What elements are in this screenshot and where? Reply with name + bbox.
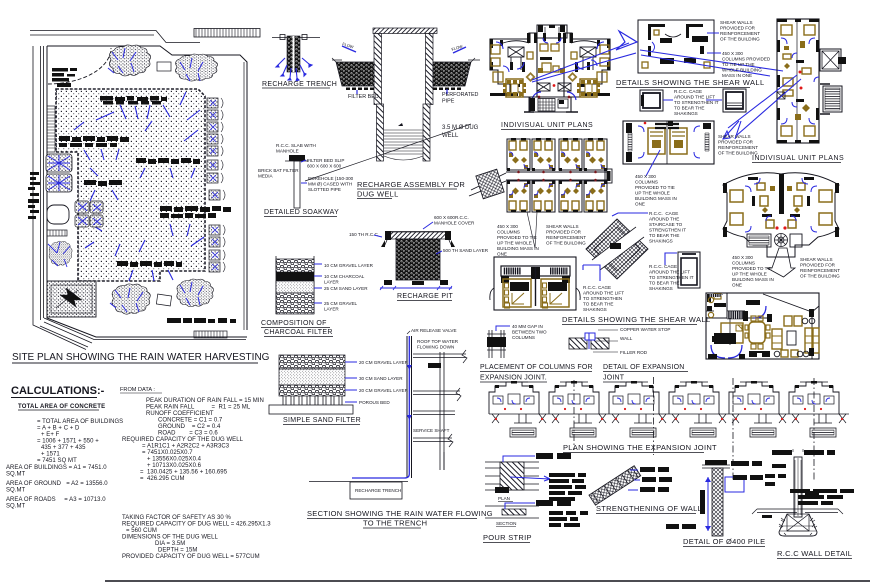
courtyard [56, 89, 205, 281]
svg-text:PEAK DURATION OF RAIN FALL = 1: PEAK DURATION OF RAIN FALL = 15 MIN [146, 398, 264, 404]
svg-text:BOREHOLE (150-300: BOREHOLE (150-300 [308, 176, 354, 181]
plan C butterfly [723, 173, 839, 277]
svg-text:PEAK RAIN FALL = R1: PEAK RAIN FALL = R1 = 25 ML [146, 405, 251, 411]
svg-text:MANHOLE COVER: MANHOLE COVER [434, 221, 475, 226]
svg-text:600 X 600R.C.C.: 600 X 600R.C.C. [434, 215, 469, 220]
svg-text:3.5 M Ø DUG: 3.5 M Ø DUG [442, 125, 479, 131]
composition of charcoal filter [261, 256, 374, 337]
svg-text:WALL: WALL [620, 336, 633, 341]
svg-text:DIA = 3.5M: DIA = 3.5M [155, 541, 185, 547]
slab row A [100, 96, 167, 105]
svg-text:+ 13556X0.025X0.4: + 13556X0.025X0.4 [147, 457, 202, 463]
svg-text:500 TH SAND LAYER: 500 TH SAND LAYER [443, 248, 489, 253]
svg-text:OF THE BUILDING: OF THE BUILDING [800, 274, 840, 279]
svg-text:FLOWING DOWN: FLOWING DOWN [417, 345, 454, 350]
svg-text:UP THE WHOLE: UP THE WHOLE [732, 272, 767, 277]
stair annex [823, 86, 842, 112]
svg-text:= 130.0425 + 135.56 + 160.695: = 130.0425 + 135.56 + 160.695 [140, 470, 228, 476]
ladder band small [47, 230, 67, 236]
svg-text:COLUMNS: COLUMNS [732, 261, 755, 266]
svg-text:PROVIDED TO TIE: PROVIDED TO TIE [497, 235, 537, 240]
svg-text:PIPE: PIPE [442, 99, 455, 105]
big blue arrow into box [616, 31, 637, 50]
svg-text:ONE: ONE [635, 202, 645, 207]
svg-text:R.C.C. CAGE: R.C.C. CAGE [649, 264, 677, 269]
canopy connector [157, 62, 171, 71]
svg-text:TO BEAR THE: TO BEAR THE [674, 106, 704, 111]
stair core bottom [747, 234, 771, 247]
top-right shear wall detail box [638, 20, 714, 73]
svg-text:RECHARGE PIT: RECHARGE PIT [397, 293, 454, 300]
svg-text:DETAIL OF EXPANSION: DETAIL OF EXPANSION [603, 364, 684, 371]
unit grid [469, 138, 612, 212]
plot pair mid-left [75, 201, 103, 227]
svg-text:INDIVISUAL UNIT PLANS: INDIVISUAL UNIT PLANS [501, 122, 593, 129]
expansion joint elevation [489, 381, 549, 437]
svg-text:SQ.MT: SQ.MT [6, 504, 26, 510]
svg-text:EXPANSION JOINT.: EXPANSION JOINT. [480, 375, 547, 382]
curved lintels [503, 41, 597, 43]
svg-text:SQ.MT: SQ.MT [6, 488, 26, 494]
tree canopy 1 [109, 45, 150, 76]
slab row B [59, 136, 129, 147]
bedroom [729, 318, 731, 345]
svg-text:SHEAR WALLS: SHEAR WALLS [800, 257, 833, 262]
svg-text:SECTION: SECTION [496, 521, 516, 526]
svg-text:AIR RELEASE VALVE: AIR RELEASE VALVE [411, 328, 457, 333]
slab row F [117, 261, 182, 267]
svg-text:AROUND THE LIFT: AROUND THE LIFT [583, 291, 624, 296]
svg-text:COLUMNS: COLUMNS [512, 335, 535, 340]
svg-text:SHAKINGS: SHAKINGS [583, 307, 607, 312]
svg-text:PROVIDED FOR: PROVIDED FOR [800, 263, 836, 268]
svg-text:150 TH R.C.C.: 150 TH R.C.C. [349, 232, 379, 237]
big dining tables [503, 79, 526, 97]
road into grid [469, 173, 506, 196]
svg-text:PLAN: PLAN [498, 496, 510, 501]
svg-text:= 7451 SQ MT: = 7451 SQ MT [37, 458, 77, 464]
svg-text:DIMENSIONS OF THE DUG WELL: DIMENSIONS OF THE DUG WELL [122, 535, 218, 541]
furniture [781, 25, 815, 136]
svg-text:TO BEAR THE: TO BEAR THE [649, 233, 679, 238]
svg-text:FILLER ROD: FILLER ROD [620, 350, 648, 355]
svg-text:ROAD = C3 = 0.6: ROAD = C3 = 0.6 [158, 431, 218, 437]
svg-text:MM Ø) CASED WITH: MM Ø) CASED WITH [308, 182, 352, 187]
svg-text:MEDIA: MEDIA [258, 174, 273, 179]
left ladder band [47, 106, 55, 152]
two-bed unit detail [623, 121, 714, 164]
svg-text:SHEAR WALLS: SHEAR WALLS [720, 20, 753, 25]
ground lines left/right [332, 59, 480, 61]
svg-text:450 X 300: 450 X 300 [732, 255, 753, 260]
lift X boxes upper [508, 47, 596, 70]
svg-text:R.C.C. SLAB WITH: R.C.C. SLAB WITH [276, 143, 316, 148]
svg-text:SQ.MT: SQ.MT [6, 472, 26, 478]
svg-text:R.C.C. CAGE: R.C.C. CAGE [649, 211, 678, 216]
svg-text:REINFORCEMENT: REINFORCEMENT [800, 268, 840, 273]
svg-text:PROVIDED TO TIE: PROVIDED TO TIE [635, 185, 675, 190]
svg-text:DETAILED SOAKWAY: DETAILED SOAKWAY [264, 209, 339, 216]
svg-text:AROUND THE LIFT: AROUND THE LIFT [649, 270, 690, 275]
svg-text:PROVIDED TO TIE: PROVIDED TO TIE [732, 266, 772, 271]
svg-text:CONCRETE = C1 = 0.7: CONCRETE = C1 = 0.7 [158, 418, 223, 424]
living room detail [706, 293, 819, 359]
svg-text:TO THE TRENCH: TO THE TRENCH [363, 519, 427, 528]
tree canopy 2 [175, 54, 217, 81]
diagonal leader [305, 124, 471, 181]
svg-text:SECTION SHOWING THE RAIN WATER: SECTION SHOWING THE RAIN WATER FLOWING [307, 509, 493, 518]
svg-text:DUG WELL: DUG WELL [357, 190, 399, 199]
svg-text:BUILDING MASS IN: BUILDING MASS IN [497, 246, 539, 251]
top mid slab [746, 300, 760, 305]
twin bed detail [490, 257, 580, 310]
svg-text:450 X 300: 450 X 300 [635, 174, 656, 179]
svg-text:PLAN SHOWING THE EXPANSION JOI: PLAN SHOWING THE EXPANSION JOINT [563, 443, 717, 452]
svg-text:TO STRENGTHEN: TO STRENGTHEN [583, 296, 622, 301]
interior walls [727, 311, 767, 318]
svg-text:R.C.C. CAGE: R.C.C. CAGE [583, 285, 611, 290]
svg-text:COPPER WATER STOP: COPPER WATER STOP [620, 327, 670, 332]
svg-text:COLUMNS PROVIDED: COLUMNS PROVIDED [722, 57, 771, 62]
right pods [207, 98, 225, 272]
svg-text:FROM DATA :: FROM DATA : [120, 387, 155, 393]
far-left black marks [28, 172, 40, 219]
black block E [52, 68, 77, 87]
bottom tree cluster 2 [177, 279, 214, 307]
svg-text:+ 1571: + 1571 [41, 452, 60, 458]
svg-text:DETAILS SHOWING THE SHEAR WALL: DETAILS SHOWING THE SHEAR WALL [562, 315, 711, 324]
expansion joint detail [569, 330, 618, 352]
svg-text:POROUS BED: POROUS BED [359, 400, 390, 405]
svg-text:REQUIRED CAPACITY OF DUG WELL: REQUIRED CAPACITY OF DUG WELL = 426.295X… [122, 522, 271, 528]
svg-text:COLUMNS: COLUMNS [497, 230, 520, 235]
site outer boundary [47, 46, 247, 337]
section showing rain water flowing [307, 328, 493, 528]
svg-text:+ E+ F: + E+ F [41, 432, 60, 438]
olive diamonds [526, 68, 578, 82]
svg-text:TO STRENGTHEN IT: TO STRENGTHEN IT [649, 275, 694, 280]
water lines [384, 130, 423, 160]
svg-text:SITE PLAN SHOWING THE RAIN WAT: SITE PLAN SHOWING THE RAIN WATER HARVEST… [12, 352, 270, 363]
big down arrow [767, 248, 795, 277]
lift cage box 1 [640, 90, 663, 111]
svg-text:RECHARGE ASSEMBLY FOR: RECHARGE ASSEMBLY FOR [357, 180, 465, 189]
svg-text:ONE: ONE [732, 283, 742, 288]
center tower [537, 25, 567, 38]
svg-text:20 CM GRAVEL LAYER: 20 CM GRAVEL LAYER [359, 360, 409, 365]
40mm gap columns [487, 330, 506, 358]
svg-text:= 1006 + 1571 + 550 +: = 1006 + 1571 + 550 + [37, 439, 99, 445]
slab row D [84, 180, 122, 186]
svg-text:435 + 377 + 435: 435 + 377 + 435 [41, 445, 86, 451]
sofas right [772, 316, 819, 357]
tower plan [728, 19, 846, 143]
svg-text:SHEAR WALLS: SHEAR WALLS [718, 134, 751, 139]
svg-text:PLACEMENT OF COLUMNS FOR: PLACEMENT OF COLUMNS FOR [480, 364, 593, 371]
blue tree branches [108, 48, 203, 81]
svg-text:ROOF TOP WATER: ROOF TOP WATER [417, 339, 459, 344]
svg-text:= 560 CUM: = 560 CUM [126, 528, 157, 534]
svg-text:BUILDING MASS IN: BUILDING MASS IN [635, 196, 677, 201]
svg-text:RECHARGE TRENCH: RECHARGE TRENCH [355, 488, 401, 493]
recharge assembly for dug well [305, 28, 480, 199]
left plots with X [46, 154, 72, 192]
svg-text:450 X 300: 450 X 300 [722, 51, 743, 56]
svg-text:REINFORCEMENT: REINFORCEMENT [718, 145, 758, 150]
svg-text:ONE: ONE [497, 252, 507, 257]
crossed lift [820, 49, 841, 71]
svg-text:450 X 300: 450 X 300 [497, 224, 518, 229]
svg-text:AREA OF ROADS = A3 = 10713: AREA OF ROADS = A3 = 10713.0 [6, 497, 106, 503]
svg-text:+ 10713X0.025X0.6: + 10713X0.025X0.6 [147, 463, 202, 469]
svg-text:20 CM GRAVEL LAYER: 20 CM GRAVEL LAYER [359, 388, 409, 393]
wings outline [490, 33, 610, 112]
svg-text:SERVICE SHAFT: SERVICE SHAFT [413, 428, 450, 433]
svg-text:= TOTAL AREA OF BUILDINGS: = TOTAL AREA OF BUILDINGS [37, 419, 123, 425]
svg-text:TO TIE UP THE: TO TIE UP THE [722, 62, 755, 67]
svg-text:PROVIDED FOR: PROVIDED FOR [546, 230, 582, 235]
svg-text:30 CM SAND LAYER: 30 CM SAND LAYER [359, 376, 403, 381]
flow arrows [342, 46, 466, 53]
black bottom marks [749, 351, 770, 357]
svg-text:WELL: WELL [442, 133, 459, 139]
road bottom-left diagonal [40, 322, 92, 347]
svg-text:= 426.295 CUM: = 426.295 CUM [140, 476, 185, 482]
svg-text:BRICK BAT FILTER: BRICK BAT FILTER [258, 168, 299, 173]
svg-text:STAIRCASE TO: STAIRCASE TO [649, 222, 683, 227]
corner road arc [48, 48, 111, 84]
crossed box left [777, 92, 785, 99]
furniture [730, 183, 832, 228]
olive furniture [491, 44, 609, 82]
svg-text:POUR STRIP: POUR STRIP [483, 533, 532, 542]
roundabout [47, 205, 69, 224]
svg-text:OF THE BUILDING: OF THE BUILDING [720, 37, 760, 42]
pile detail [666, 460, 765, 547]
svg-text:= 7451X0.025X0.7: = 7451X0.025X0.7 [142, 450, 193, 456]
svg-text:RUNOFF COEFFICIENT: RUNOFF COEFFICIENT [146, 411, 214, 417]
svg-text:10 CM CHARCOAL: 10 CM CHARCOAL [324, 274, 365, 279]
svg-text:PROVIDED CAPACITY OF DUG WELL: PROVIDED CAPACITY OF DUG WELL = 577CUM [122, 554, 260, 560]
diamond stair detail [586, 219, 648, 279]
svg-text:600 X 600 X 600: 600 X 600 X 600 [307, 164, 342, 169]
svg-text:JOINT: JOINT [603, 375, 625, 382]
road left [33, 46, 86, 350]
road top boundary [30, 31, 200, 43]
rcc wall detail [752, 449, 854, 559]
svg-text:GROUND = C2 = 0.4: GROUND = C2 = 0.4 [158, 424, 221, 430]
bottom center core [537, 83, 571, 91]
svg-text:TO STRENGTHEN IT: TO STRENGTHEN IT [674, 100, 719, 105]
simple sand filter [269, 355, 409, 425]
svg-text:RECHARGE TRENCH: RECHARGE TRENCH [262, 81, 337, 88]
svg-text:MANHOLE: MANHOLE [276, 149, 299, 154]
svg-text:CHARCOAL FILTER: CHARCOAL FILTER [264, 329, 333, 336]
svg-text:SHAKINGS: SHAKINGS [649, 239, 673, 244]
svg-text:AROUND THE LIFT: AROUND THE LIFT [674, 95, 715, 100]
svg-text:PROVIDED FOR: PROVIDED FOR [720, 26, 756, 31]
top-left bath [706, 293, 727, 318]
plan A butterfly [490, 25, 611, 112]
svg-text:SHAKINGS: SHAKINGS [674, 111, 698, 116]
bottom hatch band [194, 331, 227, 338]
svg-text:LAYER: LAYER [324, 307, 339, 312]
svg-text:SHEAR WALLS: SHEAR WALLS [546, 224, 579, 229]
svg-text:= A1R1C1 + A2R2C2 + A3R3C3: = A1R1C1 + A2R2C2 + A3R3C3 [142, 444, 230, 450]
svg-text:REQUIRED CAPACITY OF THE DUG W: REQUIRED CAPACITY OF THE DUG WELL [122, 437, 244, 443]
svg-text:25 CM GRAVEL: 25 CM GRAVEL [324, 301, 358, 306]
svg-text:PROVIDED FOR: PROVIDED FOR [718, 140, 754, 145]
svg-text:COMPOSITION OF: COMPOSITION OF [261, 320, 327, 327]
svg-text:CALCULATIONS:-: CALCULATIONS:- [11, 385, 105, 397]
svg-text:DETAILS SHOWING THE SHEAR WALL: DETAILS SHOWING THE SHEAR WALL [616, 78, 765, 87]
svg-text:FILTER BED SLIP: FILTER BED SLIP [307, 158, 344, 163]
svg-text:25 CM SAND LAYER: 25 CM SAND LAYER [324, 286, 368, 291]
bottom slab dashes [167, 318, 236, 323]
svg-text:AREA OF GROUND = A2 = 13556.: AREA OF GROUND = A2 = 13556.0 [6, 481, 108, 487]
svg-text:R.C.C WALL DETAIL: R.C.C WALL DETAIL [777, 549, 852, 558]
svg-text:AROUND THE: AROUND THE [649, 217, 679, 222]
diagonal roof [763, 294, 819, 312]
svg-text:R.C.C. CAGE: R.C.C. CAGE [674, 89, 702, 94]
svg-text:LAYER: LAYER [324, 280, 339, 285]
lift cage box 2 [723, 89, 746, 112]
detailed soakway [258, 143, 354, 217]
filter bed trapezoids [336, 62, 374, 86]
svg-text:= A + B + C + D: = A + B + C + D [37, 426, 80, 432]
svg-text:DETAIL OF Ø400 PILE: DETAIL OF Ø400 PILE [683, 537, 765, 546]
blue door arcs [496, 38, 604, 72]
lift cage box 3 [678, 252, 700, 288]
svg-text:SIMPLE SAND FILTER: SIMPLE SAND FILTER [283, 417, 361, 424]
svg-text:UP THE WHOLE: UP THE WHOLE [635, 191, 670, 196]
dining [749, 322, 765, 343]
svg-text:TO BEAR THE: TO BEAR THE [649, 281, 679, 286]
svg-text:REINFORCEMENT: REINFORCEMENT [720, 31, 760, 36]
svg-text:COLUMNS: COLUMNS [635, 180, 658, 185]
svg-text:INDIVISUAL UNIT PLANS: INDIVISUAL UNIT PLANS [752, 155, 844, 162]
svg-text:FILTER BED: FILTER BED [348, 94, 379, 100]
svg-text:REINFORCEMENT: REINFORCEMENT [546, 235, 586, 240]
svg-text:WHOLE BUILDING: WHOLE BUILDING [722, 68, 762, 73]
stair block [524, 97, 578, 112]
blue downpipe lines [74, 92, 204, 281]
diamond stair [476, 169, 504, 199]
svg-text:10 CM GRAVEL LAYER: 10 CM GRAVEL LAYER [324, 263, 374, 268]
svg-text:STRENGTHEN IT: STRENGTHEN IT [649, 228, 686, 233]
svg-text:TAKING FACTOR OF SAFETY AS 30: TAKING FACTOR OF SAFETY AS 30 % [122, 515, 232, 521]
recharge trench detail [262, 35, 337, 89]
svg-text:OF THE BUILDING: OF THE BUILDING [546, 241, 586, 246]
recharge pit [349, 215, 489, 301]
hatch band top [194, 29, 260, 38]
svg-text:AREA OF BUILDINGS = A1 = 7451.: AREA OF BUILDINGS = A1 = 7451.0 [6, 465, 107, 471]
pour strip [483, 453, 588, 543]
svg-text:SLOTTED PIPE: SLOTTED PIPE [308, 187, 341, 192]
bottom sheet line [105, 580, 870, 582]
svg-text:TOTAL AREA OF CONCRETE: TOTAL AREA OF CONCRETE [18, 404, 105, 410]
svg-text:BUILDING MASS IN: BUILDING MASS IN [732, 277, 774, 282]
slab row C [136, 158, 200, 164]
svg-text:SHAKINGS: SHAKINGS [649, 286, 673, 291]
svg-text:UP THE WHOLE: UP THE WHOLE [497, 241, 532, 246]
svg-text:40 MM GAP IN: 40 MM GAP IN [512, 324, 543, 329]
svg-text:TO BEAR THE: TO BEAR THE [583, 302, 613, 307]
strengthening of wall [589, 466, 702, 514]
svg-text:BETWEEN TWO: BETWEEN TWO [512, 330, 547, 335]
slab row E [160, 206, 231, 218]
shear walls text mid [723, 121, 741, 139]
big hatched plot [47, 281, 96, 317]
svg-text:DEPTH = 15M: DEPTH = 15M [158, 548, 197, 554]
long blue leaders [532, 43, 783, 82]
svg-text:STRENGTHENING OF WALL: STRENGTHENING OF WALL [596, 504, 702, 513]
tree cluster left low [49, 241, 72, 266]
black posts [490, 33, 611, 96]
bottom tree cluster 1 [112, 284, 150, 314]
perforated pipes [346, 88, 461, 91]
